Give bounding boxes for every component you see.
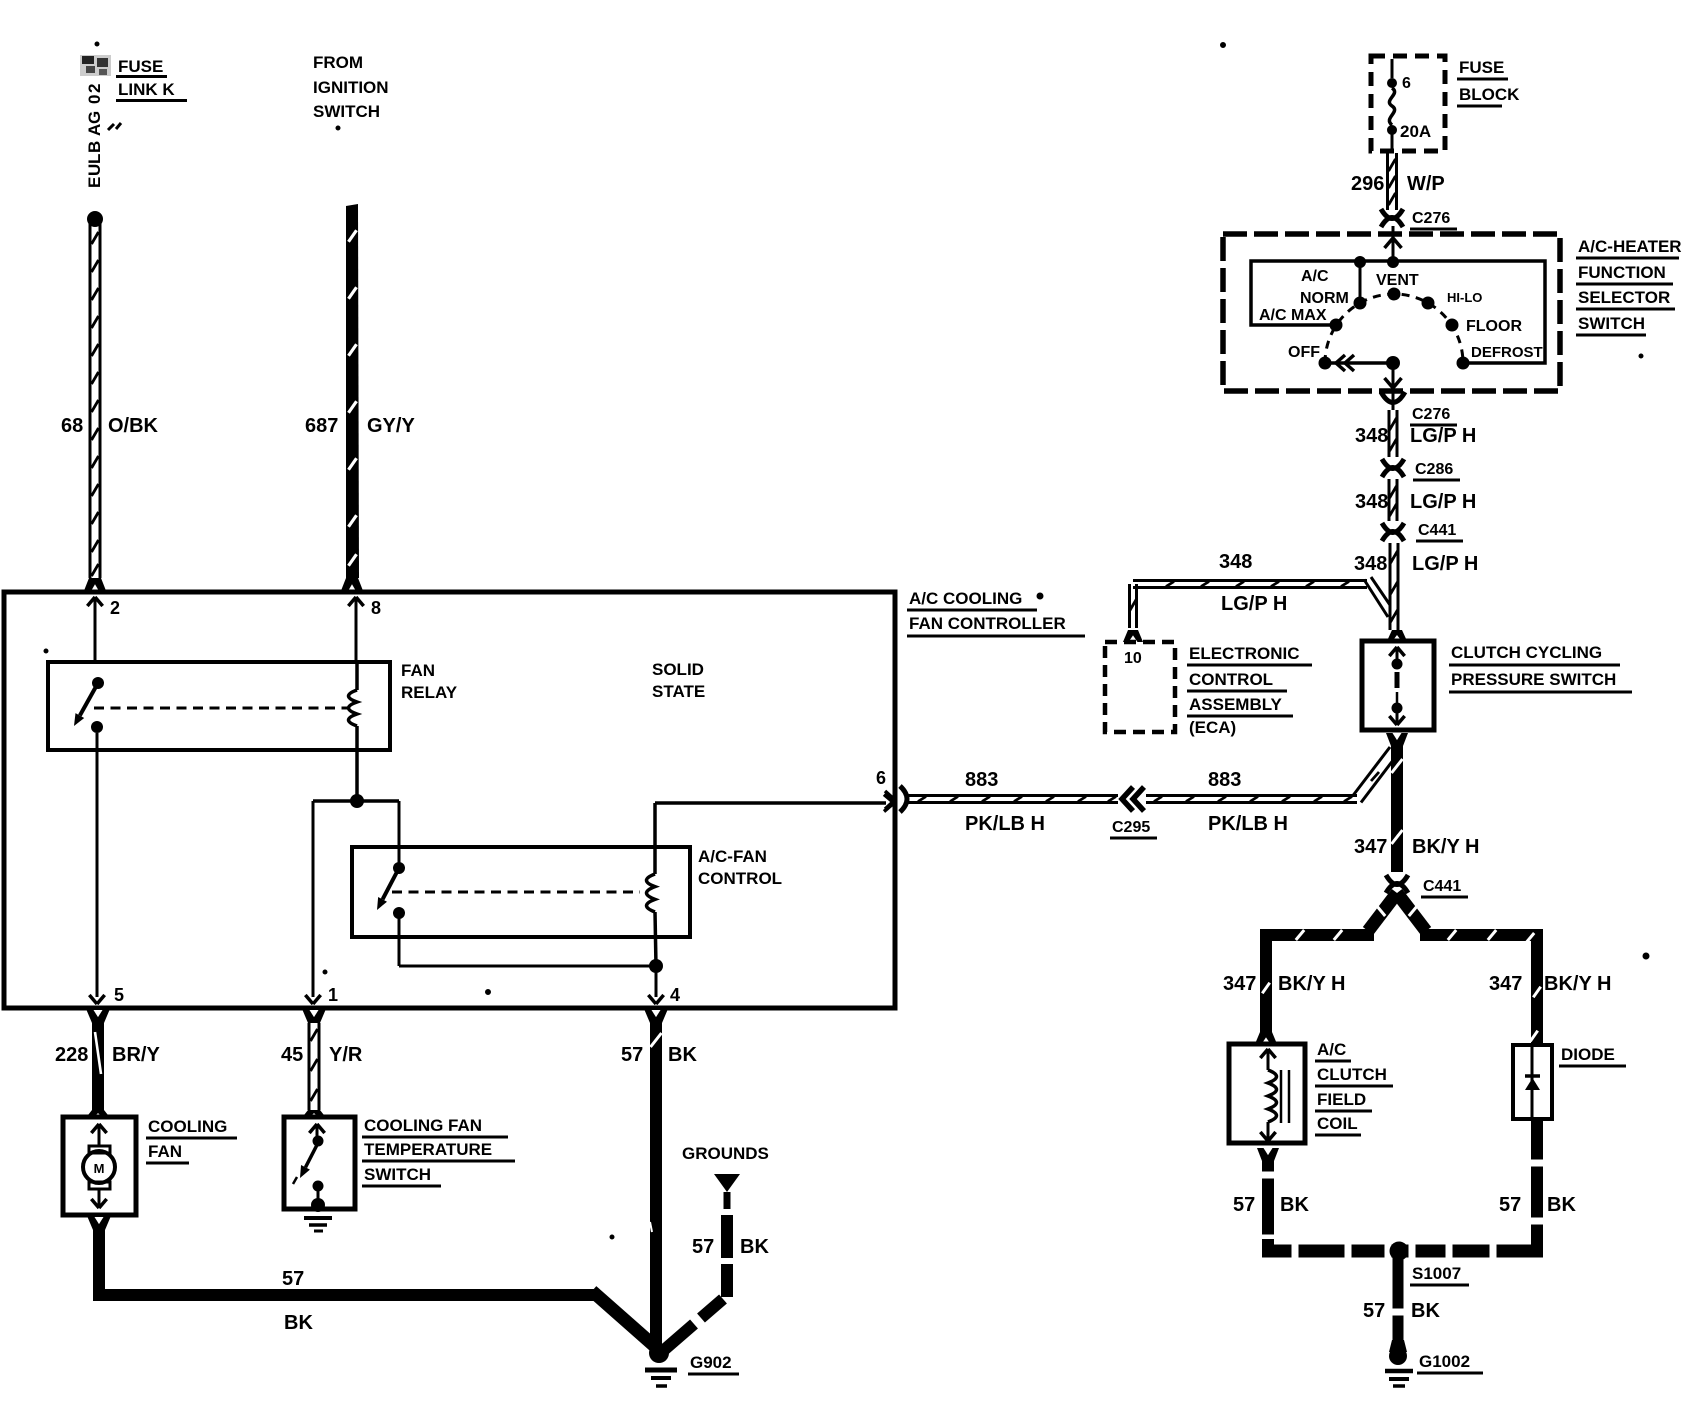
- svg-text:FROM: FROM: [313, 53, 363, 72]
- svg-text:6: 6: [876, 768, 886, 788]
- svg-text:68: 68: [61, 415, 83, 437]
- svg-text:ELECTRONIC: ELECTRONIC: [1189, 644, 1300, 663]
- svg-text:A/C-FAN: A/C-FAN: [698, 847, 767, 866]
- svg-text:C286: C286: [1415, 461, 1453, 478]
- svg-text:ASSEMBLY: ASSEMBLY: [1189, 695, 1283, 714]
- svg-text:57: 57: [1499, 1194, 1521, 1216]
- svg-text:BK: BK: [284, 1312, 313, 1334]
- svg-text:348: 348: [1219, 551, 1252, 573]
- svg-text:228: 228: [55, 1044, 88, 1066]
- svg-text:E: E: [85, 177, 104, 188]
- svg-text:S1007: S1007: [1412, 1264, 1461, 1283]
- svg-text:57: 57: [1233, 1194, 1255, 1216]
- svg-text:PRESSURE SWITCH: PRESSURE SWITCH: [1451, 670, 1616, 689]
- svg-text:COOLING: COOLING: [148, 1117, 227, 1136]
- svg-text:FLOOR: FLOOR: [1466, 318, 1522, 335]
- svg-text:W/P: W/P: [1407, 173, 1445, 195]
- svg-text:1: 1: [328, 985, 338, 1005]
- svg-text:687: 687: [305, 415, 338, 437]
- svg-text:BK: BK: [740, 1236, 769, 1258]
- svg-text:IGNITION: IGNITION: [313, 78, 389, 97]
- svg-text:FAN CONTROLLER: FAN CONTROLLER: [909, 614, 1066, 633]
- svg-text:NORM: NORM: [1300, 290, 1349, 307]
- svg-text:STATE: STATE: [652, 682, 705, 701]
- svg-text:57: 57: [621, 1044, 643, 1066]
- svg-text:883: 883: [965, 769, 998, 791]
- svg-text:BK: BK: [1411, 1300, 1440, 1322]
- svg-text:FUSE: FUSE: [1459, 58, 1504, 77]
- svg-text:FAN: FAN: [148, 1142, 182, 1161]
- svg-text:296: 296: [1351, 173, 1384, 195]
- svg-text:C295: C295: [1112, 819, 1150, 836]
- svg-text:20A: 20A: [1400, 122, 1431, 141]
- svg-text:G: G: [85, 111, 104, 124]
- svg-text:LG/P H: LG/P H: [1410, 425, 1476, 447]
- svg-text:C276: C276: [1412, 406, 1450, 423]
- svg-text:LG/P H: LG/P H: [1412, 553, 1478, 575]
- svg-text:G1002: G1002: [1419, 1352, 1470, 1371]
- svg-text:COIL: COIL: [1317, 1114, 1358, 1133]
- svg-text:COOLING FAN: COOLING FAN: [364, 1116, 482, 1135]
- svg-text:BK/Y H: BK/Y H: [1278, 973, 1345, 995]
- svg-text:B: B: [85, 141, 104, 153]
- svg-text:0: 0: [85, 95, 104, 104]
- svg-text:6: 6: [1402, 75, 1411, 92]
- svg-text:A/C MAX: A/C MAX: [1259, 307, 1327, 324]
- svg-text:BK/Y H: BK/Y H: [1544, 973, 1611, 995]
- svg-text:4: 4: [670, 985, 680, 1005]
- svg-text:GY/Y: GY/Y: [367, 415, 415, 437]
- svg-text:FAN: FAN: [401, 661, 435, 680]
- svg-text:57: 57: [1363, 1300, 1385, 1322]
- svg-text:A/C COOLING: A/C COOLING: [909, 589, 1022, 608]
- svg-text:A/C: A/C: [1317, 1040, 1346, 1059]
- svg-text:SWITCH: SWITCH: [1578, 314, 1645, 333]
- svg-text:G902: G902: [690, 1353, 732, 1372]
- svg-text:CONTROL: CONTROL: [1189, 670, 1273, 689]
- svg-text:LINK K: LINK K: [118, 80, 175, 99]
- svg-text:2: 2: [110, 598, 120, 618]
- svg-text:SWITCH: SWITCH: [313, 102, 380, 121]
- svg-text:CLUTCH CYCLING: CLUTCH CYCLING: [1451, 643, 1602, 662]
- svg-text:57: 57: [692, 1236, 714, 1258]
- svg-text:GROUNDS: GROUNDS: [682, 1144, 769, 1163]
- svg-text:347: 347: [1354, 836, 1387, 858]
- svg-text:PK/LB H: PK/LB H: [1208, 813, 1288, 835]
- svg-text:348: 348: [1355, 425, 1388, 447]
- svg-text:LG/P H: LG/P H: [1410, 491, 1476, 513]
- svg-text:L: L: [85, 154, 104, 164]
- svg-text:OFF: OFF: [1288, 344, 1320, 361]
- svg-text:347: 347: [1223, 973, 1256, 995]
- svg-text:HI-LO: HI-LO: [1447, 290, 1482, 305]
- svg-text:O/BK: O/BK: [108, 415, 159, 437]
- svg-text:883: 883: [1208, 769, 1241, 791]
- svg-text:57: 57: [282, 1268, 304, 1290]
- svg-text:C441: C441: [1423, 878, 1461, 895]
- svg-text:TEMPERATURE: TEMPERATURE: [364, 1140, 492, 1159]
- svg-text:FUSE: FUSE: [118, 57, 163, 76]
- svg-text:2: 2: [85, 84, 104, 93]
- svg-text:BK: BK: [1547, 1194, 1576, 1216]
- svg-text:DEFROST: DEFROST: [1471, 344, 1543, 361]
- svg-text:RELAY: RELAY: [401, 683, 458, 702]
- svg-text:M: M: [94, 1161, 105, 1176]
- svg-text:FIELD: FIELD: [1317, 1090, 1366, 1109]
- svg-text:347: 347: [1489, 973, 1522, 995]
- svg-text:348: 348: [1355, 491, 1388, 513]
- svg-text:DIODE: DIODE: [1561, 1045, 1615, 1064]
- svg-text:BLOCK: BLOCK: [1459, 85, 1520, 104]
- svg-text:8: 8: [371, 598, 381, 618]
- svg-text:CLUTCH: CLUTCH: [1317, 1065, 1387, 1084]
- svg-text:FUNCTION: FUNCTION: [1578, 263, 1666, 282]
- svg-text:A: A: [85, 124, 104, 136]
- svg-text:45: 45: [281, 1044, 303, 1066]
- svg-text:348: 348: [1354, 553, 1387, 575]
- svg-text:(ECA): (ECA): [1189, 718, 1236, 737]
- svg-text:CONTROL: CONTROL: [698, 869, 782, 888]
- svg-text:LG/P H: LG/P H: [1221, 593, 1287, 615]
- svg-text:SWITCH: SWITCH: [364, 1165, 431, 1184]
- svg-text:SELECTOR: SELECTOR: [1578, 288, 1670, 307]
- svg-text:SOLID: SOLID: [652, 660, 704, 679]
- svg-text:5: 5: [114, 985, 124, 1005]
- svg-text:BR/Y: BR/Y: [112, 1044, 160, 1066]
- svg-text:BK: BK: [668, 1044, 697, 1066]
- svg-text:C441: C441: [1418, 522, 1456, 539]
- svg-text:C276: C276: [1412, 210, 1450, 227]
- svg-text:U: U: [85, 164, 104, 176]
- svg-text:A/C-HEATER: A/C-HEATER: [1578, 237, 1682, 256]
- svg-text:VENT: VENT: [1376, 272, 1419, 289]
- svg-text:A/C: A/C: [1301, 268, 1329, 285]
- svg-text:Y/R: Y/R: [329, 1044, 363, 1066]
- svg-text:BK: BK: [1280, 1194, 1309, 1216]
- svg-text:PK/LB H: PK/LB H: [965, 813, 1045, 835]
- svg-text:10: 10: [1124, 650, 1142, 667]
- svg-text:BK/Y H: BK/Y H: [1412, 836, 1479, 858]
